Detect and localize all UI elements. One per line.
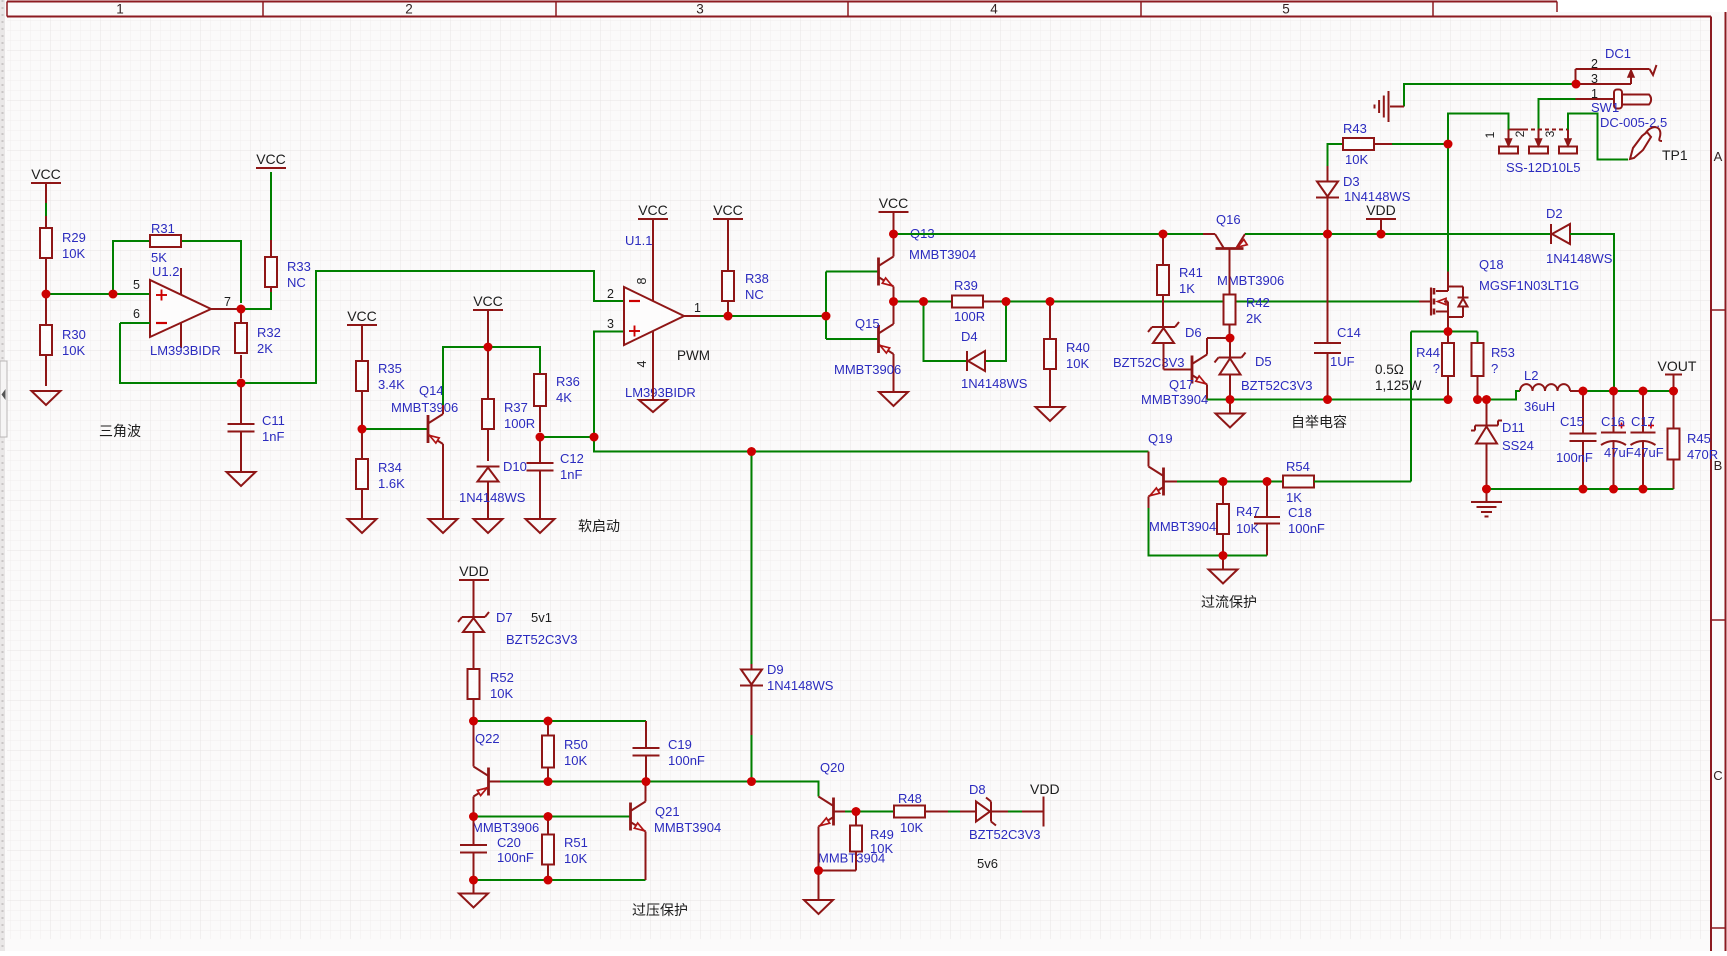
capacitor C14 — [1314, 234, 1361, 400]
wire D4 loop — [924, 302, 1007, 362]
node junction (1448,331.5) — [1444, 327, 1453, 336]
node junction (1486.5,489) — [1482, 485, 1491, 494]
ground (D5) — [1216, 400, 1245, 428]
wire D8 to VDD — [991, 811, 1044, 813]
svg-text:VDD: VDD — [1366, 202, 1396, 218]
svg-text:Q21: Q21 — [655, 804, 680, 819]
wire source rail — [1207, 399, 1449, 401]
resistor R30 — [40, 294, 86, 386]
node junction (856,811.5) — [852, 807, 861, 816]
svg-text:3: 3 — [1591, 72, 1598, 86]
svg-text:Q16: Q16 — [1216, 212, 1241, 227]
wire switch pin3 to TP1 — [1568, 114, 1628, 160]
label overcurrent 过流保护 — [1201, 594, 1257, 610]
svg-text:D6: D6 — [1185, 325, 1202, 340]
svg-text:BZT52C3V3: BZT52C3V3 — [506, 632, 578, 647]
capacitor C16 47uF polarized — [1601, 391, 1634, 489]
diode D5 zener BZT52C3V3 — [1215, 338, 1313, 400]
svg-text:软启动: 软启动 — [578, 518, 620, 534]
svg-text:BZT52C3V3: BZT52C3V3 — [1113, 355, 1185, 370]
node junction (893.5,301.5) — [889, 297, 898, 306]
resistor R33 — [265, 172, 311, 292]
wire Q20 base right — [834, 811, 895, 813]
svg-text:D10: D10 — [503, 459, 527, 474]
svg-text:VCC: VCC — [347, 308, 377, 324]
svg-text:3: 3 — [696, 2, 704, 17]
svg-text:1,125W: 1,125W — [1375, 378, 1422, 393]
node junction (1643,391) — [1639, 387, 1648, 396]
svg-text:2K: 2K — [257, 341, 273, 356]
label triangle-wave 三角波 — [99, 423, 141, 439]
svg-text:Q19: Q19 — [1148, 431, 1173, 446]
node junction (488,347) — [484, 343, 493, 352]
diode D7 zener BZT52C3V3 5v1 — [458, 610, 578, 647]
transistor Q14 MMBT3906 (PNP) — [391, 383, 458, 444]
node junction (1486.5,399.5) — [1482, 395, 1491, 404]
svg-text:C17: C17 — [1631, 414, 1655, 429]
svg-text:R49: R49 — [870, 827, 894, 842]
node C16 top / D2 drop — [1609, 387, 1618, 396]
wire R43 right to input node — [1374, 143, 1448, 145]
svg-text:5v1: 5v1 — [531, 610, 552, 625]
wire D9 node to Q20 — [752, 782, 819, 797]
wire output rail VOUT — [1583, 390, 1674, 392]
power flag VCC (R35 top) — [347, 308, 377, 361]
svg-text:Q14: Q14 — [419, 383, 444, 398]
wire driver output to R39 — [894, 301, 953, 303]
capacitor C17 47uF polarized — [1631, 391, 1664, 489]
resistor R34 — [356, 429, 405, 519]
node junction (548,781.5) — [544, 777, 553, 786]
wire pin6 input — [120, 322, 150, 324]
wire U1.1 output — [684, 315, 826, 317]
svg-text:4: 4 — [990, 2, 998, 17]
svg-text:MMBT3906: MMBT3906 — [472, 820, 539, 835]
svg-text:BZT52C3V3: BZT52C3V3 — [969, 827, 1041, 842]
svg-text:1: 1 — [694, 301, 701, 315]
node junction (46,294) — [42, 290, 51, 299]
svg-text:R34: R34 — [378, 460, 402, 475]
node DC1 ground junction — [1572, 80, 1581, 89]
ruler column number 1 — [116, 2, 124, 17]
ruler column number 2 — [405, 2, 413, 17]
svg-text:6: 6 — [133, 307, 140, 321]
wire node to pin5 — [46, 293, 150, 295]
wire node to R36 — [488, 347, 540, 374]
resistor R35 — [356, 361, 405, 429]
svg-text:100nF: 100nF — [1556, 450, 1593, 465]
wire Q19 emitter rail — [1149, 497, 1268, 556]
mosfet Q18 MGSF1N03LT1G — [1431, 257, 1579, 317]
ruler row letter A — [1714, 149, 1723, 164]
svg-text:R29: R29 — [62, 230, 86, 245]
svg-text:C16: C16 — [1601, 414, 1625, 429]
transistor Q13 MMBT3904 (NPN) — [879, 226, 977, 302]
node junction (1583,391) — [1579, 387, 1588, 396]
diode D10 1N4148WS — [459, 459, 527, 519]
svg-text:5: 5 — [133, 278, 140, 292]
node junction (548,880) — [544, 876, 553, 885]
svg-text:1K: 1K — [1286, 490, 1302, 505]
node junction (1006,301.5) — [1002, 297, 1011, 306]
svg-text:1: 1 — [116, 2, 124, 17]
svg-text:D9: D9 — [767, 662, 784, 677]
svg-text:D11: D11 — [1502, 420, 1525, 435]
wire Q19 collector from PWM rail — [1148, 452, 1150, 467]
resistor R29 — [40, 228, 86, 270]
svg-text:Q15: Q15 — [855, 316, 880, 331]
node C15 bottom — [1579, 485, 1588, 494]
svg-text:1nF: 1nF — [560, 467, 582, 482]
node R36/C12 — [536, 433, 545, 442]
svg-text:D5: D5 — [1255, 354, 1272, 369]
svg-text:U1.2: U1.2 — [152, 264, 179, 279]
ground (D10) — [474, 519, 503, 533]
svg-text:C14: C14 — [1337, 325, 1361, 340]
label 0.5 ohm rating — [1375, 362, 1422, 393]
node R52 bottom / Q22 emitter — [469, 717, 478, 726]
test point TP1 — [1630, 127, 1688, 163]
wire Q19 base right — [1164, 481, 1284, 483]
ruler row letter C — [1713, 768, 1722, 783]
svg-text:100nF: 100nF — [668, 753, 705, 768]
wire bottom rail (overvoltage) — [474, 879, 646, 881]
node C15 top — [1579, 387, 1588, 396]
svg-text:R43: R43 — [1343, 121, 1367, 136]
wire Q14 emitter to VCC node — [443, 347, 488, 414]
node Q22 collector — [469, 812, 478, 821]
wire Q18 gate — [1419, 301, 1431, 303]
wire Q22 emitter — [473, 721, 475, 767]
svg-text:D2: D2 — [1546, 206, 1563, 221]
node R39 left / D4 loop — [919, 297, 928, 306]
wire input node down to Q18 drain — [1447, 144, 1449, 287]
transistor Q17 MMBT3904 (NPN) — [1141, 355, 1208, 408]
diode D2 1N4148WS — [1546, 206, 1613, 266]
switch SW1 SS-12D10L5 — [1483, 130, 1580, 176]
node C20 bottom — [469, 876, 478, 885]
node junction (1448,144) — [1444, 140, 1453, 149]
svg-text:MMBT3904: MMBT3904 — [654, 820, 721, 835]
svg-text:Q17: Q17 — [1169, 377, 1194, 392]
svg-text:1K: 1K — [1179, 281, 1195, 296]
wire D9 vertical — [751, 452, 753, 665]
wire U1.1 pin4 to ground — [635, 331, 653, 400]
node R41 top — [1159, 230, 1168, 239]
node R50 bottom — [544, 777, 553, 786]
wire Q15 base — [826, 338, 879, 340]
node R50 top — [544, 717, 553, 726]
resistor R32 — [235, 309, 281, 378]
svg-text:BZT52C3V3: BZT52C3V3 — [1241, 378, 1313, 393]
svg-text:R40: R40 — [1066, 340, 1090, 355]
resistor R47 — [1217, 482, 1260, 556]
wire Q21 collector — [645, 782, 647, 802]
node R53 bottom — [1473, 395, 1482, 404]
node C16 bottom — [1609, 485, 1618, 494]
capacitor C11 — [228, 383, 285, 472]
svg-text:C11: C11 — [262, 413, 285, 428]
svg-text:D7: D7 — [496, 610, 513, 625]
svg-text:5K: 5K — [151, 250, 167, 265]
svg-text:1.6K: 1.6K — [378, 476, 405, 491]
diode D9 1N4148WS — [740, 662, 834, 782]
wire Q14 collector to ground — [442, 444, 444, 519]
svg-text:2: 2 — [607, 287, 614, 301]
wire Q22 base right — [489, 781, 752, 783]
node C14 top — [1323, 230, 1332, 239]
svg-text:VCC: VCC — [31, 166, 61, 182]
wire op-amp output pin7 — [211, 305, 245, 314]
svg-text:C15: C15 — [1560, 414, 1584, 429]
wire DC1 ground to chassis — [1390, 84, 1576, 107]
op-amp U1.1 LM393BIDR PWM — [607, 233, 710, 400]
ground (R40) — [1036, 407, 1065, 421]
capacitor C18 100nF — [1254, 482, 1325, 556]
svg-text:TP1: TP1 — [1662, 147, 1688, 163]
wire R29 to node — [45, 270, 47, 294]
ground (R34) — [348, 519, 377, 533]
ruler column number 5 — [1282, 2, 1290, 17]
inductor L2 36uH — [1520, 368, 1583, 414]
node junction (594,437) — [590, 433, 599, 442]
wire pin3 riser and PWM rail — [594, 332, 1149, 452]
svg-text:?: ? — [1491, 361, 1498, 376]
node junction (751.5,781.5) — [747, 777, 756, 786]
svg-text:D3: D3 — [1343, 174, 1360, 189]
svg-text:C12: C12 — [560, 451, 584, 466]
svg-text:过流保护: 过流保护 — [1201, 594, 1257, 610]
svg-text:?: ? — [1433, 361, 1440, 376]
wire Q20 emitter to R49 bottom — [819, 827, 857, 871]
svg-text:LM393BIDR: LM393BIDR — [625, 385, 696, 400]
svg-text:R32: R32 — [257, 325, 281, 340]
wire R54 right to source node — [1314, 481, 1411, 483]
svg-text:R41: R41 — [1179, 265, 1203, 280]
svg-text:MMBT3906: MMBT3906 — [834, 362, 901, 377]
node R47 top — [1219, 477, 1228, 486]
svg-text:R39: R39 — [954, 278, 978, 293]
wire R43 to D3 — [1328, 144, 1344, 182]
diode D11 SS24 schottky — [1471, 400, 1534, 490]
wire feedback left R31 — [113, 241, 150, 294]
ground (R30) — [32, 391, 61, 405]
resistor R36 — [534, 374, 580, 432]
svg-text:PWM: PWM — [677, 348, 710, 363]
resistor R54 1K — [1283, 459, 1314, 505]
svg-text:10K: 10K — [490, 686, 513, 701]
node junction (113,294) — [109, 290, 118, 299]
resistor R53 — [1472, 343, 1515, 400]
resistor R45 470R — [1668, 391, 1719, 489]
svg-text:100nF: 100nF — [1288, 521, 1325, 536]
svg-text:4: 4 — [635, 360, 649, 367]
wire Q18 source to node — [1447, 317, 1449, 332]
node junction (473.5,721) — [469, 717, 478, 726]
capacitor C19 100nF — [633, 721, 705, 782]
svg-text:36uH: 36uH — [1524, 399, 1555, 414]
node junction (1576,84) — [1572, 80, 1581, 89]
node D5 anode — [1226, 395, 1235, 404]
node C17 bottom — [1639, 485, 1648, 494]
svg-text:MMBT3904: MMBT3904 — [909, 247, 976, 262]
node junction (1643,489) — [1639, 485, 1648, 494]
svg-text:R53: R53 — [1491, 345, 1515, 360]
node junction (1583,489) — [1579, 485, 1588, 494]
svg-text:VCC: VCC — [713, 202, 743, 218]
wire R31 to output node — [182, 241, 241, 303]
node VOUT — [1669, 387, 1678, 396]
left scrollbar strip — [0, 0, 7, 951]
svg-text:NC: NC — [287, 275, 306, 290]
capacitor C12 — [527, 437, 584, 519]
power flag VDD (overvoltage) — [459, 563, 489, 617]
svg-text:Q18: Q18 — [1479, 257, 1504, 272]
svg-text:Q20: Q20 — [820, 760, 845, 775]
svg-text:10K: 10K — [870, 841, 893, 856]
svg-text:100R: 100R — [504, 416, 535, 431]
ground (Q14) — [429, 519, 458, 533]
transistor Q19 MMBT3904 (NPN mirrored) — [1148, 431, 1216, 534]
ground (C20) — [459, 880, 488, 908]
resistor R39 — [952, 278, 985, 324]
label bootstrap 自举电容 — [1291, 414, 1347, 430]
svg-text:R35: R35 — [378, 361, 402, 376]
node output to driver bases — [822, 312, 831, 321]
wire Q21 emitter — [645, 832, 647, 881]
node Q13 collector VCC rail — [889, 230, 898, 239]
wire source rail to L2 — [1478, 391, 1521, 400]
node junction (818.5,870.5) — [814, 866, 823, 875]
transistor Q16 MMBT3906 (PNP pass) — [1203, 212, 1284, 288]
resistor R44 0.5ohm — [1416, 332, 1454, 400]
node junction (646,781.5) — [642, 777, 651, 786]
svg-text:2: 2 — [1513, 130, 1527, 137]
ground (C11) — [227, 472, 256, 486]
node input switch — [1444, 140, 1453, 149]
svg-text:7: 7 — [224, 295, 231, 309]
node D3 anode on VDD rail — [1323, 230, 1332, 239]
node junction (548,721) — [544, 717, 553, 726]
svg-text:NC: NC — [745, 287, 764, 302]
node junction (473.5,816.5) — [469, 812, 478, 821]
wire Q16 emitter rail to D3 node — [1245, 233, 1551, 235]
svg-text:0.5Ω: 0.5Ω — [1375, 362, 1404, 377]
node R42 bottom / Q17 collector / D5 — [1226, 334, 1235, 343]
svg-text:1nF: 1nF — [262, 429, 284, 444]
resistor R51 — [542, 817, 588, 881]
svg-text:VCC: VCC — [473, 293, 503, 309]
node junction (1230,399.5) — [1226, 395, 1235, 404]
resistor R52 — [468, 669, 514, 721]
transistor Q21 MMBT3904 (NPN) — [631, 802, 722, 836]
power flag VCC (R33 top) — [256, 151, 286, 168]
node D9 top on PWM rail — [747, 447, 756, 456]
node junction (1613.5,489) — [1609, 485, 1618, 494]
transistor Q20 MMBT3904 (NPN mirrored) — [818, 760, 885, 866]
svg-text:DC1: DC1 — [1605, 46, 1631, 61]
node VCC soft-start — [484, 343, 493, 352]
svg-text:VDD: VDD — [1030, 781, 1060, 797]
node junction (1230,338) — [1226, 334, 1235, 343]
diode D8 zener BZT52C3V3 5v6 — [969, 782, 1041, 871]
node D11 anode bottom rail — [1482, 485, 1491, 494]
svg-text:R38: R38 — [745, 271, 769, 286]
svg-text:R44: R44 — [1416, 345, 1440, 360]
node junction (1223,481.5) — [1219, 477, 1228, 486]
node junction (728,316) — [724, 312, 733, 321]
svg-text:三角波: 三角波 — [99, 423, 141, 439]
ground (overcurrent) — [1209, 556, 1238, 584]
node junction (1381,234) — [1377, 230, 1386, 239]
node U1.1 output R38 — [724, 312, 733, 321]
node junction (826,316) — [822, 312, 831, 321]
node R44 bottom — [1444, 395, 1453, 404]
wire R39 right — [983, 301, 1044, 303]
svg-text:SS24: SS24 — [1502, 438, 1534, 453]
svg-text:Q22: Q22 — [475, 731, 500, 746]
svg-text:R48: R48 — [898, 791, 922, 806]
label overvoltage 过压保护 — [632, 902, 688, 918]
resistor R42 — [1224, 266, 1270, 338]
node C18 top — [1263, 477, 1272, 486]
svg-text:D8: D8 — [969, 782, 986, 797]
svg-text:A: A — [1714, 149, 1723, 164]
svg-text:C20: C20 — [497, 835, 521, 850]
svg-text:R31: R31 — [151, 221, 175, 236]
svg-text:3: 3 — [1543, 130, 1557, 137]
node junction (241,383) — [237, 379, 246, 388]
connector DC1 DC-005-2.5 barrel jack — [1576, 46, 1668, 130]
svg-text:2K: 2K — [1246, 311, 1262, 326]
wire output to R33 — [241, 292, 271, 309]
node Q20 emitter — [814, 866, 823, 875]
svg-text:MMBT3904: MMBT3904 — [1141, 392, 1208, 407]
svg-text:R42: R42 — [1246, 295, 1270, 310]
svg-text:10K: 10K — [900, 820, 923, 835]
svg-text:1: 1 — [1483, 131, 1497, 138]
wire Q17 collector — [1207, 338, 1230, 355]
capacitor C15 — [1556, 391, 1597, 489]
ground (Q15) — [879, 392, 908, 406]
svg-text:10K: 10K — [1066, 356, 1089, 371]
wire Q17 emitter to source rail — [1206, 385, 1208, 400]
ground earth (D11) — [1471, 489, 1502, 517]
resistor R40 — [1044, 302, 1090, 408]
node junction (1327.5,399.5) — [1323, 395, 1332, 404]
node junction (362,429) — [358, 425, 367, 434]
wire gate drive rail — [1044, 301, 1419, 303]
power flag VDD (D8) — [1030, 781, 1060, 827]
diode D4 1N4148WS — [961, 329, 1028, 391]
svg-text:47uF: 47uF — [1604, 445, 1634, 460]
svg-text:R51: R51 — [564, 835, 588, 850]
node D9 bottom — [747, 777, 756, 786]
svg-text:1N4148WS: 1N4148WS — [961, 376, 1028, 391]
wire D7 to R52 — [473, 632, 475, 669]
resistor R50 — [542, 721, 588, 782]
svg-text:C19: C19 — [668, 737, 692, 752]
ground (U1.1 pin4) — [639, 400, 667, 412]
capacitor C20 100nF — [460, 817, 534, 881]
svg-text:SS-12D10L5: SS-12D10L5 — [1506, 160, 1580, 175]
node junction (1448,399.5) — [1444, 395, 1453, 404]
wire node to Q14 base — [362, 428, 428, 430]
svg-text:10K: 10K — [1345, 152, 1368, 167]
svg-text:470R: 470R — [1687, 447, 1718, 462]
node C17 top — [1639, 387, 1648, 396]
resistor R37 — [482, 347, 535, 461]
